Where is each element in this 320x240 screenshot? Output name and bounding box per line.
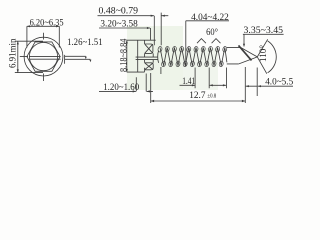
svg-text:1.41: 1.41	[182, 77, 195, 87]
svg-text:6.20~6.35: 6.20~6.35	[30, 19, 64, 29]
svg-text:6.91min: 6.91min	[8, 38, 18, 68]
svg-text:8.18~8.84: 8.18~8.84	[120, 38, 130, 72]
svg-text:3.35~3.45: 3.35~3.45	[244, 26, 284, 36]
svg-text:4.04~4.22: 4.04~4.22	[191, 13, 229, 23]
svg-text:±0.8: ±0.8	[207, 93, 216, 100]
svg-text:4.0~5.5: 4.0~5.5	[265, 78, 293, 88]
svg-text:12.7: 12.7	[189, 91, 205, 101]
svg-text:0.48~0.79: 0.48~0.79	[99, 6, 139, 16]
svg-text:60°: 60°	[206, 27, 218, 38]
svg-text:110°: 110°	[258, 45, 269, 62]
svg-text:3.20~3.58: 3.20~3.58	[100, 19, 138, 29]
svg-text:1.20~1.60: 1.20~1.60	[103, 83, 139, 93]
svg-text:1.26~1.51: 1.26~1.51	[67, 38, 103, 48]
